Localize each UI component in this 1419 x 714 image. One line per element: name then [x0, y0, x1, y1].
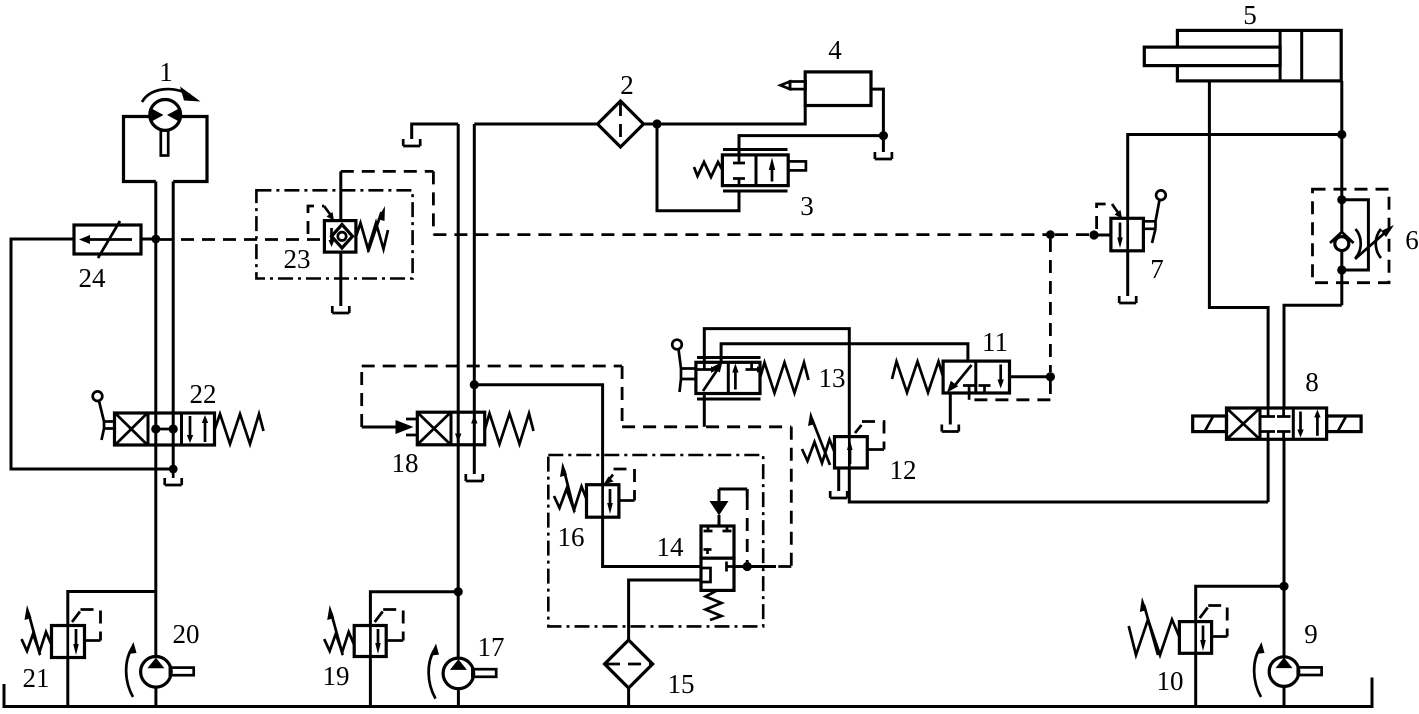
- valve 18 spring: [485, 414, 534, 445]
- motor M1 inward triangles: [152, 109, 180, 122]
- node on 474 line: [470, 380, 479, 389]
- valve 10 adjust arrow: [1144, 605, 1158, 655]
- svg-text:3: 3: [800, 191, 814, 221]
- svg-text:13: 13: [819, 363, 846, 393]
- relief valve 12 body: [835, 437, 868, 468]
- valve 22 lever: [93, 391, 103, 401]
- pump 9 rotation arrow: [1254, 648, 1261, 697]
- svg-text:15: 15: [668, 669, 695, 699]
- valve 11 left cell diagonal arrow: [954, 365, 972, 387]
- wire: motor left line down to pump 20: [154, 182, 157, 658]
- wire: valve 13 top-left port loop: [704, 329, 849, 437]
- wire: valve 13 bottom to pilot line: [703, 394, 706, 427]
- valve 11 self-pilot dashed: [969, 381, 1050, 400]
- pilot dashed: solenoid 18 loop over top to valve 14: [362, 366, 792, 567]
- wire: valve 14 lower-left to filter 15: [629, 580, 701, 640]
- valve 13 right cell up arrow: [734, 371, 737, 390]
- valve 14 lower cell right port mark: [727, 562, 735, 572]
- valve 19 spring: [324, 632, 354, 652]
- wire: 24 left loop to tank node: [11, 239, 169, 469]
- valve 12 drain to tank: [837, 468, 840, 491]
- node left of valve 7: [1089, 230, 1098, 239]
- valve 10 through-line and arrow: [1196, 622, 1203, 653]
- valve 18 right cell arrowheads: [455, 434, 461, 443]
- dashed enclosure box for comp 6: [1313, 189, 1390, 283]
- wire: branch to relief 19: [370, 592, 458, 626]
- node at 173,469: [169, 465, 178, 474]
- relief valve 10 body: [1179, 622, 1211, 654]
- pump 17 rotation arrow: [429, 650, 436, 699]
- wire: pump 9 to bus: [1283, 686, 1286, 705]
- pump 17 shaft: [472, 669, 496, 677]
- valve 7 pilot dashed bracket: [1097, 204, 1112, 229]
- pump 17 circle: [443, 658, 474, 689]
- valve 14 lower body: [701, 558, 734, 590]
- motor M1 rotation arrow: [142, 89, 190, 102]
- dash-dot enclosure box for valves 16 and 14: [548, 455, 763, 626]
- valve 11 left cell port mark: [963, 386, 975, 394]
- wire: comp 6 bottom to valve 8: [1284, 305, 1342, 408]
- wire: valve 8 to pump 9: [1283, 439, 1286, 657]
- wire: valve 11 drain to tank: [949, 393, 952, 425]
- svg-text:20: 20: [173, 619, 200, 649]
- directional valve 22 body: [115, 413, 215, 445]
- wire: cylinder cap side down to comp 6: [1340, 81, 1343, 200]
- valve 14 upper body: [701, 526, 734, 558]
- component 4 body: [805, 72, 871, 106]
- svg-text:18: 18: [392, 448, 419, 478]
- tank below node: [875, 152, 892, 159]
- svg-text:1: 1: [159, 57, 173, 87]
- tank below valve 23: [332, 306, 349, 313]
- wire: vertical line 474: [473, 124, 476, 474]
- valve 21 spring: [22, 632, 52, 652]
- wire: node left to valve 7 top: [1128, 135, 1342, 219]
- dash-dot enclosure box for valve 23: [256, 190, 412, 278]
- svg-text:14: 14: [657, 532, 685, 562]
- wire: branch to relief 10: [1196, 586, 1284, 622]
- svg-text:6: 6: [1405, 225, 1419, 255]
- solenoid valve 18 body: [417, 412, 484, 445]
- wire: component 4 right to node: [871, 89, 883, 152]
- svg-text:11: 11: [982, 327, 1008, 357]
- tank structure left of filter 2: [412, 124, 459, 139]
- valve 13 right cell port mark: [746, 362, 758, 369]
- comp 6 bypass loop: [1342, 200, 1369, 270]
- component 4 nozzle: [790, 82, 806, 90]
- wire: line B from valve 13 to valve 11: [721, 344, 968, 363]
- valve 11 spring: [892, 362, 943, 393]
- valve 22 middle cell ports: [151, 424, 160, 433]
- valve 16 through-line and arrow: [603, 485, 610, 517]
- wire: vertical line 458 (pump 17 supply): [457, 124, 460, 658]
- svg-text:12: 12: [890, 455, 917, 485]
- valve 16 adjust arrow: [564, 470, 575, 512]
- relief valve 19 body: [354, 626, 386, 657]
- valve 3 right cell up arrow: [771, 166, 774, 182]
- valve 22 right cell arrows: [189, 416, 192, 436]
- valve 8 middle cell blocked ports: [1268, 408, 1284, 439]
- valve 13 left cell port bar and arrow: [698, 362, 712, 369]
- valve 22 left cell X: [116, 414, 147, 444]
- valve 13 spring: [760, 363, 809, 394]
- wire: filter 2 to component 4: [644, 106, 806, 125]
- pilot dashed: rail to valve 7: [1055, 233, 1090, 236]
- valve 23 vertical line: [339, 171, 342, 306]
- valve 3 body: [722, 155, 788, 186]
- throttle valve 24 body: [74, 225, 141, 254]
- valve 7 through-line and down arrow: [1120, 219, 1128, 251]
- wire: node left to valve 3 top: [739, 136, 883, 155]
- valve 10 pilot dashed bracket: [1200, 608, 1208, 619]
- pump 20 shaft: [170, 668, 194, 676]
- svg-text:24: 24: [79, 263, 107, 293]
- node on line 458 (branch to relief 19): [454, 587, 463, 596]
- node at valve 14 right port: [743, 562, 752, 571]
- valve 11 right cell down arrow: [999, 365, 1002, 382]
- valve 14 lower cell left window: [701, 568, 711, 582]
- throttle 24 slash: [98, 221, 120, 258]
- throttle 24 arrow: [88, 238, 132, 241]
- hydraulic motor M1 box: [124, 117, 208, 182]
- valve 13 upper and lower parallel lines: [697, 358, 761, 400]
- valve 11 output to pilot node: [1010, 375, 1048, 378]
- valve 19 adjust arrow: [331, 613, 343, 655]
- cylinder 5 body: [1177, 30, 1341, 81]
- valve 23 spring: [356, 223, 388, 249]
- pilot dashed: rail down to valve 11: [1049, 239, 1052, 372]
- valve 21 adjust arrow: [29, 613, 41, 655]
- node at valve 11 output: [1046, 372, 1055, 381]
- re-draw main lines through valve 18: [458, 412, 474, 445]
- wire: motor right line down to tank node: [172, 182, 175, 471]
- valve 23 inner arrow: [329, 240, 335, 247]
- valve 22 spring: [215, 414, 264, 444]
- valve 23 adjust arrow: [368, 212, 382, 252]
- wire: 24 right to line A: [141, 238, 156, 241]
- valve 14 upper cell closed port marks: [704, 527, 732, 555]
- valve 10 spring: [1129, 620, 1180, 656]
- pilot dashed: valve 23 top to main pilot rail: [341, 171, 1047, 234]
- wire: branch to relief 21: [68, 592, 156, 627]
- valve 14 bottom spring: [706, 590, 722, 620]
- svg-text:23: 23: [284, 244, 311, 274]
- valve 16 spring: [554, 487, 587, 511]
- valve 3 right stub box: [788, 161, 806, 170]
- wire: node to valve 16 top: [474, 385, 602, 485]
- svg-text:16: 16: [558, 522, 585, 552]
- wire: valve 12 bottom to valve 8 bottom-left: [849, 468, 1268, 502]
- svg-text:4: 4: [828, 35, 842, 65]
- pump 9 circle: [1269, 657, 1299, 687]
- valve 19 through-line and arrow: [370, 626, 378, 656]
- re-draw main lines through valve 22: [156, 413, 173, 445]
- comp 6 check valve line and nodes: [1340, 200, 1343, 305]
- pilot dashed: node 24 to valve 23: [160, 238, 324, 241]
- tank below valve 18 right: [466, 474, 483, 481]
- svg-text:8: 8: [1305, 367, 1319, 397]
- node after filter 2: [652, 119, 661, 128]
- wire: node to valve 7: [1094, 234, 1111, 237]
- valve 18 left cell X: [419, 414, 450, 444]
- valve 12 adjust arrow: [812, 419, 830, 465]
- valve 19 pilot dashed bracket: [375, 612, 383, 623]
- comp 6 adjust arrow: [1355, 230, 1388, 259]
- valve 12 through-line and up arrow: [848, 437, 851, 468]
- wire: pump 17 to bus: [457, 689, 460, 705]
- wire: pump 20 to bus: [154, 687, 157, 705]
- wire: valve 8 bottom-left up: [1267, 439, 1270, 502]
- pump 20 circle: [141, 657, 172, 688]
- node right of 4: [879, 131, 888, 140]
- valve 8 left pilot box: [1193, 416, 1227, 432]
- filter 2 diamond: [598, 101, 644, 147]
- valve 3 left cell closed ports: [733, 155, 745, 186]
- hydraulic motor M1 circle: [150, 100, 181, 131]
- valve 13 left cell diagonal arrow: [703, 368, 719, 391]
- valve 23 body: [324, 221, 356, 253]
- valve 3 spring: [694, 162, 722, 177]
- valve 21 through-line and arrow: [68, 626, 76, 656]
- svg-text:5: 5: [1243, 0, 1257, 30]
- valve 8 right cell arrows: [1299, 412, 1302, 432]
- valve 23 inner check diamond: [332, 225, 353, 249]
- tank below valve 22: [165, 469, 182, 485]
- valve 16 pilot dashed bracket: [607, 475, 613, 483]
- valve 12 pilot dashed bracket: [855, 425, 862, 433]
- svg-text:19: 19: [323, 661, 350, 691]
- valve 8 left cell X: [1228, 410, 1259, 439]
- pump 20 rotation arrow: [126, 648, 133, 697]
- wire: valve 16 bottom to valve 14 left: [603, 517, 701, 566]
- svg-text:21: 21: [23, 663, 50, 693]
- cylinder 5 piston lines: [1280, 30, 1302, 81]
- valve 23 pilot dashed bracket: [308, 206, 324, 234]
- motor M1 shaft: [161, 131, 168, 156]
- wire: node down and right to valve 3 bottom: [657, 124, 739, 211]
- cylinder 5 rod: [1144, 47, 1280, 66]
- svg-text:17: 17: [478, 632, 505, 662]
- pressure valve 7 body: [1111, 218, 1144, 251]
- wire: valve 14 right port: [734, 565, 776, 568]
- svg-text:7: 7: [1150, 254, 1164, 284]
- valve 3 upper and lower parallel lines: [723, 150, 788, 192]
- svg-text:10: 10: [1157, 666, 1184, 696]
- node on cap line: [1337, 130, 1346, 139]
- filter 15 diamond: [605, 640, 653, 688]
- valve 14 check poppet and pilot: [719, 489, 747, 526]
- wire: valve 10 to bus: [1194, 653, 1197, 705]
- reducing valve 16 body: [587, 485, 619, 518]
- valve 13 lever: [672, 340, 682, 350]
- node at 156,239: [151, 235, 160, 244]
- valve 11 right cell port mark: [979, 386, 991, 394]
- wire: cylinder rod side down to valve 8: [1209, 81, 1268, 408]
- pump 9 shaft: [1298, 667, 1322, 675]
- valve 7 drain to tank: [1126, 251, 1129, 296]
- svg-text:9: 9: [1304, 619, 1318, 649]
- valve 7 lever: [1156, 190, 1166, 200]
- relief valve 21 body: [52, 626, 85, 658]
- wire: filter 15 to bus: [627, 688, 630, 705]
- comp 6 throttle arcs: [1356, 229, 1382, 258]
- svg-text:22: 22: [190, 379, 217, 409]
- valve 13 body: [696, 362, 760, 393]
- directional valve 8 body: [1227, 408, 1327, 439]
- valve 12 spring: [802, 440, 835, 464]
- wire: 474 line to filter 2: [474, 123, 598, 126]
- node above pump 9: [1279, 582, 1288, 591]
- wire: valve 19 to bus: [369, 657, 372, 706]
- valve 21 pilot dashed bracket: [72, 612, 80, 623]
- valve 8 right pilot box: [1327, 416, 1362, 432]
- comp 6 check valve ball and seat: [1335, 237, 1349, 251]
- valve 18 solenoid: [362, 426, 396, 429]
- sequence valve 11 body: [943, 361, 1009, 393]
- wire: valve 21 to bus: [66, 658, 69, 706]
- svg-text:2: 2: [620, 70, 634, 100]
- node on pilot rail (branch to valve 11): [1046, 230, 1055, 239]
- wire: bottom bus line: [4, 678, 1372, 707]
